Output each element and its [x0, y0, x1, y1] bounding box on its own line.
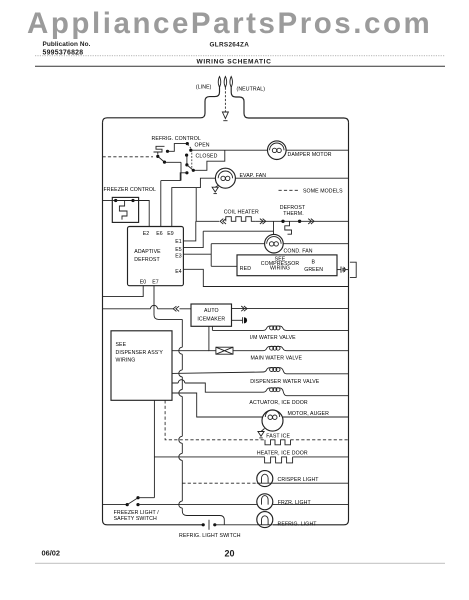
svg-text:Publication No.: Publication No.: [43, 41, 91, 48]
freezer control box: [112, 197, 138, 222]
E6 vertical wire: [160, 181, 162, 227]
I/M valve coil: [263, 326, 287, 330]
wire freezer control to E2: [133, 201, 149, 227]
refrig lamp circle: [257, 512, 273, 528]
actuator feed from box: [172, 383, 263, 392]
E4 wire: [183, 269, 348, 286]
dispenser valve row: [172, 372, 263, 373]
therm dot 1: [281, 220, 284, 223]
freezer switch blade: [127, 498, 138, 505]
RED wire to compressor: [211, 265, 237, 267]
svg-text:WIRING: WIRING: [270, 265, 290, 271]
svg-text:EVAP. FAN: EVAP. FAN: [240, 173, 267, 179]
ground tick: [223, 120, 227, 122]
evap wire to right edge: [235, 177, 348, 179]
freezer contact right dot: [131, 199, 134, 202]
svg-text:AppliancePartsPros.com: AppliancePartsPros.com: [27, 7, 432, 40]
svg-text:REFRIG. CONTROL: REFRIG. CONTROL: [152, 136, 201, 142]
refrig chord: [257, 524, 273, 526]
svg-text:GREEN: GREEN: [304, 267, 323, 273]
lower pole contact dot: [185, 163, 188, 166]
green wire connector: [337, 269, 341, 271]
auger motor circle: [262, 410, 283, 431]
svg-text:CRISPER LIGHT: CRISPER LIGHT: [278, 477, 320, 483]
damper motor circle: [268, 141, 287, 160]
svg-text:ADAPTIVE: ADAPTIVE: [134, 249, 161, 255]
E7 wire down: [154, 286, 182, 320]
svg-text:MOTOR, AUGER: MOTOR, AUGER: [288, 411, 330, 417]
svg-text:(NEUTRAL): (NEUTRAL): [237, 87, 266, 93]
therm blade: [283, 220, 300, 222]
crisper chord: [257, 482, 273, 484]
svg-text:FAST ICE: FAST ICE: [266, 433, 290, 439]
heater row to right edge: [293, 456, 349, 458]
frzr lamp filament: [262, 496, 269, 505]
evap fan feed from E9: [172, 178, 216, 226]
svg-text:THERM.: THERM.: [283, 211, 303, 217]
E0 wire to left edge: [103, 286, 144, 297]
svg-text:SOME MODELS: SOME MODELS: [303, 188, 343, 194]
svg-text:RED: RED: [240, 266, 251, 272]
CLOSED contact dot: [185, 154, 188, 157]
dispenser row to right edge: [287, 373, 349, 375]
heater ice door teeth: [265, 457, 293, 463]
svg-text:SAFETY SWITCH: SAFETY SWITCH: [114, 516, 157, 522]
svg-text:OPEN: OPEN: [195, 143, 210, 149]
evap coil circles: [221, 176, 225, 180]
icemaker test stub: [232, 319, 243, 321]
wire line prong to outline: [103, 88, 220, 123]
svg-text:FREEZER CONTROL: FREEZER CONTROL: [104, 187, 157, 193]
frzr lamp circle: [257, 494, 273, 510]
svg-text:E4: E4: [175, 269, 182, 275]
hop at auger feed: [179, 390, 183, 397]
freezer switch right dot: [136, 503, 139, 506]
svg-text:COND. FAN: COND. FAN: [284, 249, 313, 255]
auger ground tick: [259, 437, 262, 439]
ground clip bracket: [350, 262, 356, 277]
refrig thermostat sensor bracket: [154, 146, 165, 152]
auger wire to right edge: [283, 416, 349, 418]
frzr row continue: [138, 504, 257, 506]
coil heater tap vertical: [195, 188, 197, 222]
wire dispenser box to fuse: [172, 350, 209, 352]
dispenser valve coil: [263, 368, 287, 374]
svg-text:GLRS264ZA: GLRS264ZA: [210, 42, 250, 49]
footer rule: [35, 562, 445, 564]
cond fan tap from therm row: [273, 221, 275, 234]
svg-text:HEATER, ICE DOOR: HEATER, ICE DOOR: [257, 451, 308, 457]
contact dot A: [156, 155, 159, 158]
plug prong NEUTRAL: [230, 77, 233, 88]
actuator coil: [263, 388, 287, 396]
hop at fast ice row: [179, 436, 183, 443]
lower blade dot: [192, 169, 195, 172]
svg-text:FRZR. LIGHT: FRZR. LIGHT: [278, 500, 312, 506]
svg-text:E3: E3: [175, 254, 182, 260]
compressor box: [237, 255, 337, 276]
hop at frzr row: [179, 501, 183, 508]
svg-text:CLOSED: CLOSED: [196, 153, 218, 159]
wire heater to therm: [256, 220, 283, 222]
crisper row dashed from vertical: [182, 482, 256, 484]
outline right edge: [273, 123, 349, 525]
freezer contact left dot: [114, 199, 117, 202]
main row to right edge: [287, 350, 349, 352]
evap ground arrow: [212, 187, 218, 192]
E1 wire to coil heater: [183, 221, 195, 241]
OPEN contact dot: [186, 142, 189, 145]
plug prong ground center: [224, 77, 227, 88]
auger feed from box: [172, 393, 262, 417]
crisper lamp circle: [257, 471, 273, 487]
cond coil arc: [267, 237, 281, 244]
cond coil circles: [269, 242, 273, 246]
wire neutral prong to outline: [231, 88, 348, 123]
hop at heater row: [179, 453, 183, 460]
lower second contact dot: [185, 171, 188, 174]
crisper row to right edge: [273, 482, 349, 484]
adaptive defrost box: [128, 227, 184, 286]
CLOSED channel right and bottom: [195, 150, 225, 170]
chevron icemaker left: [173, 306, 179, 311]
fast ice heater teeth: [265, 440, 291, 445]
refrig thermostat feed dashed: [103, 156, 154, 158]
damper motor coil arc: [270, 143, 284, 150]
refrig lamp filament: [262, 516, 269, 525]
I/M row to right edge: [287, 329, 349, 331]
svg-text:E7: E7: [152, 280, 159, 286]
wire left edge to freezer control: [103, 200, 116, 202]
evap coil arc: [218, 171, 232, 178]
svg-text:DISPENSER ASS'Y: DISPENSER ASS'Y: [116, 350, 164, 356]
wire C to OPEN contact: [168, 144, 188, 152]
svg-text:E6: E6: [156, 231, 163, 237]
icemaker drop to fuse: [209, 326, 216, 350]
svg-text:REFRIG. LIGHT SWITCH: REFRIG. LIGHT SWITCH: [179, 533, 241, 539]
auger coil circles: [268, 415, 272, 419]
outline left edge: [103, 122, 204, 524]
auger ground stem: [261, 429, 265, 432]
svg-text:(LINE): (LINE): [196, 85, 212, 91]
svg-text:E1: E1: [175, 239, 182, 245]
crisper lamp filament: [262, 474, 269, 483]
freezer sensor zigzag: [119, 201, 127, 220]
heater ice door row: [154, 456, 264, 458]
evap fan circle: [215, 168, 235, 188]
svg-text:MAIN WATER VALVE: MAIN WATER VALVE: [251, 356, 303, 362]
cond wire to right edge: [283, 243, 348, 245]
svg-text:WIRING: WIRING: [116, 357, 136, 363]
auto icemaker box: [191, 304, 232, 326]
wire closed contact down: [186, 155, 188, 165]
thermostat blade: [158, 156, 165, 162]
refrig light switch dots: [202, 523, 205, 526]
contact dot C: [166, 150, 169, 153]
actuator row to right edge: [287, 395, 349, 397]
wire lower contact to E6 join: [161, 173, 187, 181]
wire B-path to E6 vertical: [180, 162, 182, 180]
fast ice feed dashed: [165, 400, 265, 440]
damper wire to right edge: [286, 149, 348, 151]
lower pole blade: [187, 165, 193, 170]
cond fan circle: [265, 234, 284, 253]
svg-text:06/02: 06/02: [42, 549, 61, 558]
hop at main valve row: [179, 347, 183, 354]
svg-text:COIL HEATER: COIL HEATER: [224, 209, 259, 215]
damper feed wire / CLOSED channel top: [191, 149, 268, 151]
wire B to E6 drop: [165, 161, 182, 163]
svg-text:ACTUATOR, ICE DOOR: ACTUATOR, ICE DOOR: [249, 400, 308, 406]
E5 jog vertical: [183, 231, 203, 247]
chevron left heater: [220, 219, 226, 224]
header dotted rule: [35, 55, 445, 57]
freezer switch common dot: [126, 503, 129, 506]
E5 row wire: [203, 230, 273, 232]
fuse: [216, 347, 233, 354]
svg-text:I/M WATER VALVE: I/M WATER VALVE: [250, 335, 296, 341]
svg-text:DAMPER MOTOR: DAMPER MOTOR: [288, 152, 332, 158]
wire therm to right edge: [300, 220, 349, 222]
ground arrow: [222, 112, 228, 119]
ground wire dashed: [224, 88, 226, 113]
chevron icemaker right: [241, 306, 247, 311]
svg-text:REFRIG. LIGHT: REFRIG. LIGHT: [278, 522, 318, 528]
long vertical from E7 with hops: [182, 319, 224, 524]
svg-text:20: 20: [224, 549, 234, 559]
svg-text:AUTO: AUTO: [204, 308, 219, 314]
plug prong LINE: [218, 77, 221, 88]
frzr row from left edge: [103, 504, 128, 506]
refrig light switch bar: [208, 520, 210, 530]
evap ground stem: [215, 185, 218, 187]
svg-text:5995376828: 5995376828: [43, 50, 84, 57]
main valve row: [233, 350, 263, 352]
freezer switch upper dot: [136, 496, 139, 499]
icemaker drop to IM valve row: [211, 326, 213, 330]
chevron right of therm: [308, 219, 314, 224]
heater element teeth: [226, 217, 256, 222]
svg-text:DISPENSER WATER VALVE: DISPENSER WATER VALVE: [250, 379, 320, 385]
svg-text:ICEMAKER: ICEMAKER: [197, 317, 225, 323]
dispenser assy box: [111, 331, 172, 401]
fast ice row dashed right: [291, 439, 349, 441]
svg-text:WIRING SCHEMATIC: WIRING SCHEMATIC: [197, 59, 272, 66]
coil heater row left: [196, 220, 219, 222]
refrig row through lamp: [215, 524, 257, 526]
auger coil arc: [265, 410, 279, 417]
main valve coil: [263, 346, 287, 350]
svg-text:E0: E0: [140, 280, 147, 286]
sensor stem: [157, 152, 159, 155]
hop over E7: [151, 305, 158, 309]
svg-text:DEFROST: DEFROST: [134, 257, 160, 263]
I/M water valve row: [212, 329, 263, 331]
auger ground arrow: [258, 432, 264, 437]
svg-text:E5: E5: [175, 247, 182, 253]
heater ice door feed: [153, 400, 155, 497]
frzr row to right edge: [273, 504, 349, 506]
E3 feed to cond fan: [183, 244, 264, 267]
icemaker row right: [232, 308, 349, 310]
freezer blade: [116, 200, 133, 202]
title underline rule: [35, 65, 445, 67]
wire upper contact to heater drop: [138, 497, 154, 499]
therm bellows: [285, 221, 292, 234]
svg-text:SEE: SEE: [116, 342, 127, 348]
svg-text:DEFROST: DEFROST: [280, 205, 306, 211]
some models dashes: [279, 189, 300, 191]
hop at dispenser row: [179, 370, 183, 377]
svg-text:E2: E2: [143, 231, 150, 237]
svg-text:B: B: [312, 260, 316, 266]
dashed linkage: [188, 144, 192, 169]
chevron right heater: [260, 219, 266, 224]
evap ground tick: [214, 193, 217, 195]
icemaker row from left edge with hop: [103, 308, 192, 310]
svg-text:E9: E9: [167, 231, 174, 237]
contact dot B: [163, 161, 166, 164]
damper coil circles: [272, 148, 276, 152]
therm dot 2: [298, 220, 301, 223]
damper feed dot: [189, 149, 192, 152]
